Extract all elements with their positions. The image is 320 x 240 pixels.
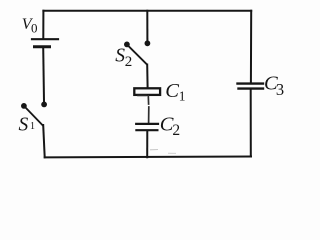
- switch S2: [124, 40, 150, 64]
- svg-text:3: 3: [276, 80, 284, 99]
- wire: top junction to switch S2: [146, 11, 148, 40]
- wire: C2 to bottom junction: [146, 131, 148, 157]
- svg-text:1: 1: [179, 89, 186, 104]
- wire: battery to switch S1: [42, 47, 45, 102]
- svg-text:0: 0: [31, 20, 38, 35]
- label C2: [160, 114, 180, 140]
- capacitor C2: [136, 124, 158, 130]
- wire: left branch top (corner to battery): [42, 11, 44, 38]
- svg-text:1: 1: [30, 121, 35, 132]
- switch S1: [21, 102, 47, 126]
- scan smudge near bottom wire: [150, 149, 158, 151]
- wire: switch S1 to bottom-left corner: [43, 125, 45, 157]
- label C3: [264, 72, 284, 99]
- label V0: [22, 16, 38, 35]
- label S2: [115, 46, 132, 70]
- wire: switch S2 to capacitor C1: [146, 65, 148, 88]
- svg-text:2: 2: [125, 54, 133, 70]
- wire: C1 to C2: [147, 96, 150, 123]
- wire: bottom horizontal: [45, 156, 251, 159]
- label C1: [165, 80, 185, 104]
- capacitor C3: [238, 84, 264, 89]
- svg-text:C: C: [165, 80, 179, 102]
- scan smudge below C2 right: [168, 152, 176, 154]
- capacitor C1 (box plate): [134, 88, 160, 95]
- label S1: [19, 115, 36, 136]
- wire: right branch top (corner to C3): [250, 11, 252, 83]
- wire: top horizontal: [43, 10, 251, 12]
- battery V0: [32, 39, 58, 47]
- svg-text:2: 2: [172, 122, 180, 139]
- svg-text:S: S: [19, 115, 29, 136]
- wire: C3 to bottom-right corner: [250, 90, 252, 157]
